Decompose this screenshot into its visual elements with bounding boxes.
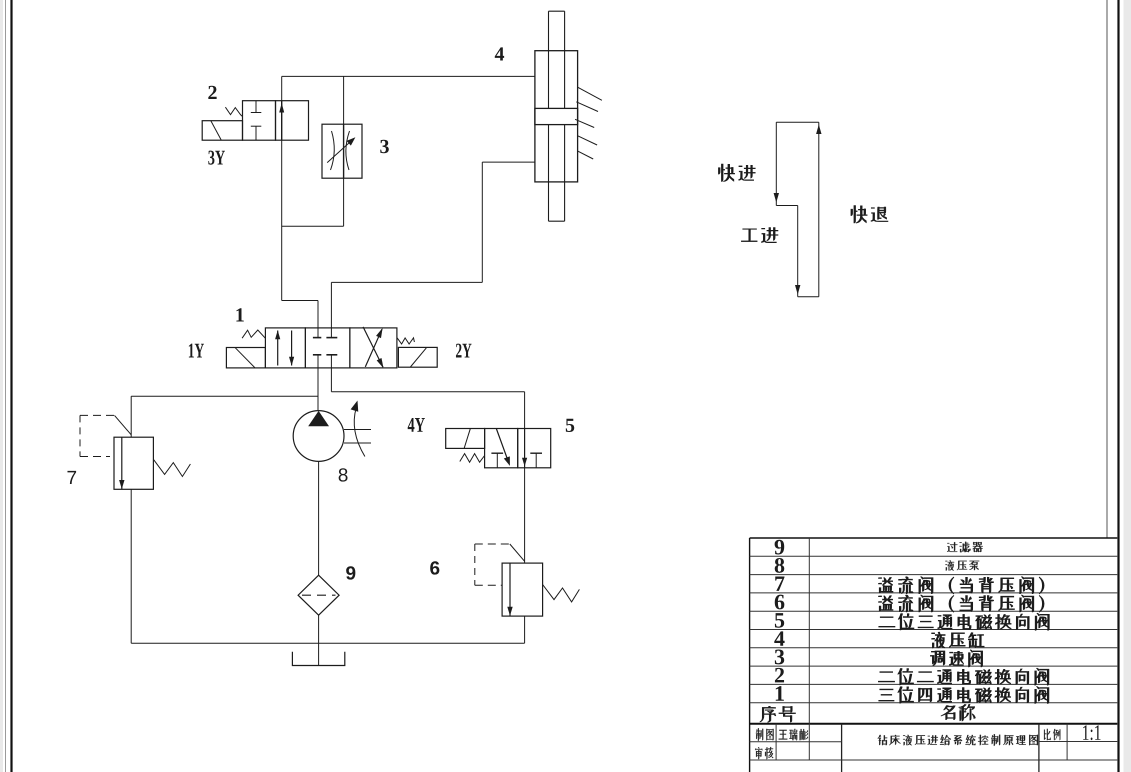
wire valve 2 down branch [281, 140, 283, 300]
row 6 name yiliufa relief valve [879, 595, 1045, 612]
motion cycle path rapid advance [776, 121, 819, 123]
row 7 name yiliufa relief valve [879, 577, 1045, 594]
wire valve 3 top riser [343, 76, 345, 124]
label 5 [566, 419, 574, 432]
valve 5 left box blocked port T [496, 453, 498, 468]
valve 2 blocked symbol top T [255, 101, 257, 113]
valve 3 adjustment arrow diagonal [327, 139, 353, 162]
wire pump branch left to relief valve 7 [131, 395, 318, 397]
valve 5 left box diagonal flow arrow [496, 429, 508, 463]
cylinder 4 piston [535, 108, 578, 124]
valve 2 body right position box (flow) [276, 101, 309, 141]
drawing frame thick line left [10, 0, 12, 772]
valve 1 body middle position box [305, 328, 350, 368]
label shenhe checked-by [755, 747, 773, 759]
title block row lines [750, 555, 1118, 557]
relief valve 7 spring zigzag [153, 459, 190, 476]
row 4 name yeyagang hydraulic cylinder [932, 632, 984, 648]
label kuaijin rapid advance [718, 164, 755, 182]
solenoid 1Y diagonal [235, 348, 255, 368]
valve 1 body right position box [350, 328, 397, 368]
relief valve 7 body box [114, 437, 153, 489]
cylinder 4 rod lower section [548, 125, 550, 222]
label 7 [67, 471, 76, 484]
wire cylinder lower port run [331, 281, 482, 283]
solenoid 3Y diagonal [211, 121, 221, 140]
valve 3 left arc [331, 131, 335, 170]
label 1 [236, 308, 243, 321]
label mingcheng name header [941, 704, 975, 721]
label kuaitui rapid retract [851, 206, 888, 224]
solenoid 3Y box of valve 2 [202, 121, 242, 141]
motion cycle jog [776, 205, 797, 207]
title block header bottom thick line [750, 723, 1118, 725]
pump 8 circle [293, 411, 344, 462]
solenoid 4Y diagonal [464, 429, 470, 449]
relief valve 6 body box [502, 563, 542, 616]
label scale value 1:1 [1083, 725, 1101, 740]
label drawing title drilling machine hydraulic feed system control schematic [878, 734, 1038, 746]
valve 5 return spring zigzag [460, 454, 485, 463]
filter 9 diamond [298, 575, 339, 615]
tank symbol [292, 652, 344, 666]
relief valve 7 flow line with down arrow [121, 437, 123, 489]
wire relief valve 6 down to tank bus [524, 616, 526, 643]
valve 2 return spring zigzag [225, 107, 242, 116]
valve 3 right arc [346, 131, 350, 170]
label xuhao serial number header [760, 706, 796, 722]
wire valve 2 top riser [281, 76, 283, 100]
cylinder 4 body [535, 51, 578, 182]
cylinder 4 mount hatching [578, 87, 602, 100]
valve 5 body right position box [518, 429, 551, 468]
valve 1 body left position box [265, 328, 305, 368]
valve 3 body box [322, 124, 362, 178]
wire relief valve 7 down to tank bus [130, 489, 132, 643]
valve 2 body left position box (blocked) [243, 101, 276, 141]
solenoid 2Y box of valve 1 [398, 347, 437, 367]
title block outer left edge [749, 538, 751, 772]
wire valve 1 P port down to pump [317, 368, 319, 411]
motion cycle path bottom [798, 296, 819, 298]
label zhitu drawn-by [756, 728, 774, 741]
wire jog into valve 1 P port [282, 300, 318, 302]
label bili scale [1044, 729, 1060, 740]
bottom return bus wire [131, 642, 524, 644]
label 3 [380, 140, 389, 153]
wire valve 1 top right port riser [330, 282, 332, 328]
title block item numbers column [775, 540, 785, 555]
page border outer thin line left [5, 0, 7, 772]
label 6 [430, 561, 439, 574]
valve 1 left box parallel flow arrows [277, 331, 279, 366]
valve 1 middle box closed center stubs and dashes [317, 328, 319, 338]
valve 1 left spring zigzag [242, 330, 265, 338]
label 4Y [408, 418, 425, 432]
label 2 [208, 86, 216, 99]
valve 2 blocked symbol bottom T [255, 126, 257, 140]
pump 8 drain lines [344, 429, 371, 431]
relief valve 7 pilot diagonal [115, 415, 132, 434]
label gongjin work feed [741, 228, 778, 243]
title block top edge [750, 537, 1118, 539]
valve 3 through line [343, 124, 345, 178]
wire valve 5 down to relief valve 6 [524, 468, 526, 563]
wire filter to tank [318, 615, 320, 665]
row 1 name three-position four-way solenoid valve [879, 686, 1049, 703]
valve 2 flow path line with up arrow [281, 101, 283, 141]
page left gray margin strip [0, 0, 3, 772]
wire valve 3 bottom jog to left [343, 178, 345, 226]
row 3 name tiaosufa speed regulating valve [930, 650, 982, 667]
wire pump suction down to filter [318, 461, 320, 575]
label 9 [346, 566, 355, 579]
pump 8 output triangle [308, 411, 329, 426]
label 4 [495, 47, 504, 60]
label wang ruibin name [779, 729, 808, 740]
row 5 name two-position three-way solenoid valve [879, 613, 1050, 630]
valve 5 body left position box [485, 429, 518, 468]
row 9 name guolvqi filter [947, 542, 983, 553]
title block column divider [808, 538, 810, 724]
title strip full row line [750, 759, 1118, 761]
title strip verticals [775, 724, 777, 761]
filter 9 element dashed line [302, 594, 336, 596]
relief valve 6 pilot line dashed [474, 544, 476, 585]
relief valve 6 spring zigzag [543, 585, 580, 602]
page right gray margin strip [1124, 0, 1131, 772]
pump 8 variable displacement arc arrow [354, 408, 365, 457]
title strip row line zhitu/shenhe [750, 741, 842, 743]
label 3Y [208, 151, 225, 165]
row 2 name two-position two-way solenoid valve [878, 668, 1049, 685]
relief valve 6 flow line with down arrow [509, 563, 511, 616]
valve 1 right box crossed flow arrows [365, 329, 382, 367]
motion cycle path work feed [797, 206, 799, 297]
solenoid 1Y box of valve 1 [226, 348, 265, 368]
valve 5 right box through line with arrow [524, 429, 526, 468]
valve 1 right spring zigzag [397, 338, 414, 344]
motion cycle path rapid retract [818, 122, 820, 297]
valve 5 right box blocked port T [535, 453, 537, 468]
label 2Y [456, 344, 472, 358]
cylinder 4 rod upper section [548, 11, 550, 108]
wire top rail from valve 2 to cylinder 4 upper port [282, 75, 535, 77]
wire valve 1 T port down and right to valve 5 rail [330, 368, 332, 392]
page border inner thin line right [1106, 0, 1108, 538]
label 8 [339, 468, 348, 481]
label 1Y [189, 344, 204, 358]
relief valve 6 pilot diagonal [510, 544, 525, 561]
wire rail down into valve 5 [524, 392, 526, 429]
relief valve 7 pilot line dashed [79, 415, 81, 456]
row 8 name yeyabeng hydraulic pump [945, 560, 979, 570]
solenoid 4Y box of valve 5 [446, 429, 485, 449]
solenoid 2Y diagonal [410, 348, 426, 367]
drawing frame thick line right [1117, 0, 1119, 772]
